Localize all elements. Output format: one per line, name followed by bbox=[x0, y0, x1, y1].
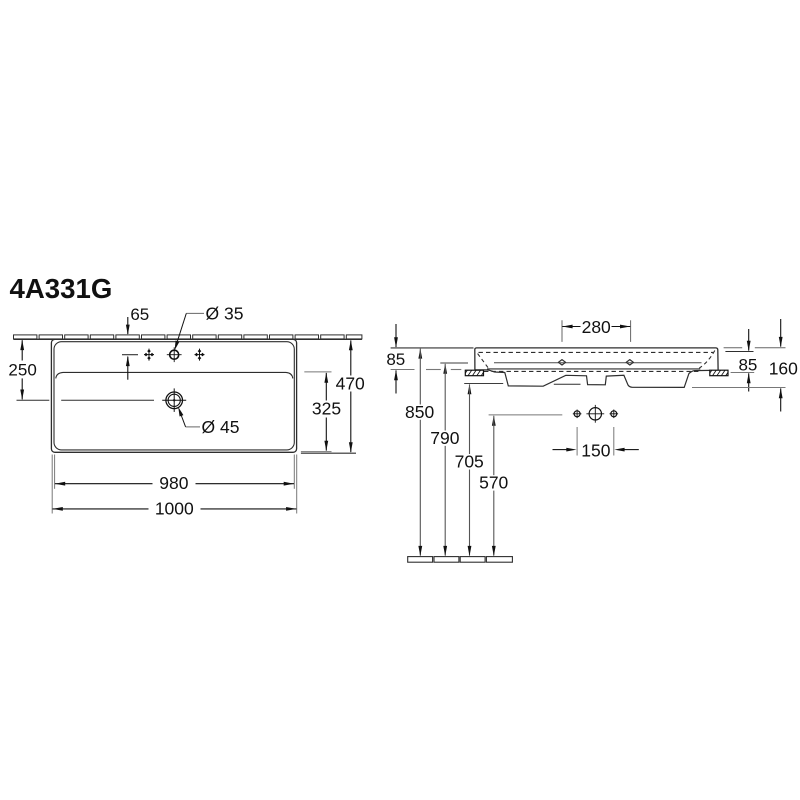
apron lower edge line (front view) bbox=[487, 368, 700, 370]
fixing hole right (front view) bbox=[626, 360, 633, 365]
rim inner edge extension (right) bbox=[725, 351, 753, 353]
svg-text:Ø 45: Ø 45 bbox=[202, 417, 240, 437]
apron edge line (front view) bbox=[494, 362, 702, 364]
svg-text:4A331G: 4A331G bbox=[10, 273, 113, 304]
drain centerline bbox=[17, 399, 50, 401]
fixing hole left (front view) bbox=[558, 360, 565, 365]
hidden bowl wall left (dashed) bbox=[478, 354, 489, 368]
basin underside profile (front view) bbox=[475, 370, 710, 388]
tap hole Ø35 bbox=[170, 350, 179, 359]
wall bracket right (hatched) bbox=[710, 370, 728, 376]
reference line 570 bbox=[489, 414, 563, 416]
svg-text:325: 325 bbox=[312, 399, 341, 419]
hidden mounting line (dashed) bbox=[484, 370, 699, 372]
svg-text:85: 85 bbox=[386, 350, 405, 369]
svg-text:85: 85 bbox=[738, 355, 757, 374]
rim top extension line (right) bbox=[724, 347, 743, 349]
dimension 160 bbox=[780, 319, 782, 347]
svg-text:850: 850 bbox=[405, 402, 434, 422]
basin outer outline (plan view) bbox=[51, 339, 296, 452]
svg-text:790: 790 bbox=[430, 428, 459, 448]
svg-text:705: 705 bbox=[455, 452, 484, 472]
supply connection left bbox=[574, 411, 580, 417]
svg-text:65: 65 bbox=[130, 305, 149, 324]
drain hole Ø45 bbox=[166, 392, 183, 409]
basin body rim outline (front view) bbox=[475, 348, 718, 370]
leader and label Ø 45 bbox=[180, 412, 186, 427]
basin inner rim line (plan view) bbox=[54, 342, 294, 450]
supply connection right bbox=[611, 411, 617, 417]
hidden rim inner edge (dashed) bbox=[479, 351, 714, 353]
svg-text:570: 570 bbox=[479, 473, 508, 493]
bracket bottom extension (right) bbox=[731, 372, 755, 374]
svg-text:Ø 35: Ø 35 bbox=[206, 304, 244, 324]
dimension 325 (bowl to front) bbox=[304, 371, 331, 373]
dimension 85 left (rim to mounting) bbox=[395, 324, 397, 347]
svg-text:470: 470 bbox=[336, 373, 365, 393]
svg-text:980: 980 bbox=[159, 473, 188, 493]
dimension 280 (fixing hole spacing) bbox=[561, 320, 563, 342]
dimension 850 (rim height) bbox=[418, 348, 422, 358]
basin bottom extension line (right) bbox=[692, 387, 786, 389]
dimension 250 (wall to drain center) bbox=[20, 340, 24, 350]
svg-text:160: 160 bbox=[769, 359, 798, 379]
wall face line (plan view) bbox=[14, 338, 362, 340]
optional tap hole marker left bbox=[144, 354, 154, 356]
reference line 705 bbox=[464, 383, 503, 385]
dimension 85 right bbox=[748, 329, 750, 351]
svg-text:1000: 1000 bbox=[155, 498, 194, 518]
hidden bowl wall right (dashed) bbox=[699, 351, 715, 369]
optional tap hole marker right bbox=[195, 354, 205, 356]
dimension 705 bbox=[468, 384, 472, 394]
dimension 150 (supply spacing) bbox=[576, 427, 578, 456]
sump inner ledge line (front view) bbox=[554, 383, 581, 385]
wall section band (plan view) bbox=[14, 335, 37, 339]
reference line 790 bbox=[440, 362, 468, 364]
bowl front edge (plan view) bbox=[56, 372, 293, 378]
svg-text:250: 250 bbox=[8, 360, 36, 379]
rim top extension line (left) bbox=[391, 347, 474, 349]
dimension 570 bbox=[492, 415, 496, 425]
dimension 65 (tap hole to wall) bbox=[127, 317, 129, 334]
dimension 470 (depth) bbox=[301, 452, 356, 454]
floor line (front view) bbox=[408, 557, 433, 563]
drain connection center bbox=[589, 408, 601, 420]
mounting level reference (dash-dot, left of basin) bbox=[391, 369, 415, 371]
dimension 980 (inner width) bbox=[54, 455, 56, 489]
dimension 1000 (outer width) bbox=[51, 455, 53, 514]
dimension 790 bbox=[443, 364, 447, 374]
leader and label Ø 35 bbox=[186, 312, 204, 314]
svg-text:150: 150 bbox=[581, 440, 610, 460]
svg-text:280: 280 bbox=[582, 317, 611, 337]
